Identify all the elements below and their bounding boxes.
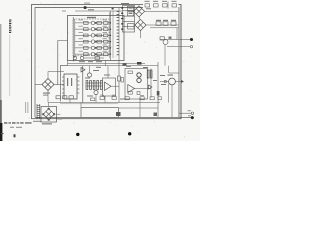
border mask under top right parts bbox=[143, 3, 179, 8]
resistor R40 bbox=[147, 70, 149, 78]
label bbox=[88, 9, 94, 10]
transistor Q13 bbox=[94, 90, 98, 94]
label bbox=[42, 123, 52, 124]
wire bbox=[179, 112, 191, 114]
wire bbox=[80, 103, 82, 108]
wire bbox=[167, 2, 169, 9]
wire bbox=[95, 95, 97, 103]
paper speckle bbox=[9, 2, 194, 138]
bridge rectifier BR4 bbox=[135, 19, 146, 30]
wire bbox=[47, 91, 49, 103]
capacitor C22 bbox=[171, 22, 176, 26]
label above connector bbox=[121, 3, 129, 4]
label marks under block bbox=[79, 61, 102, 62]
loop wire top bbox=[58, 41, 68, 86]
index marks outside border bbox=[25, 102, 27, 113]
dashed pcb outline bbox=[73, 19, 109, 56]
bottom parts labels bbox=[100, 95, 144, 96]
resistor network cluster bbox=[86, 81, 102, 90]
terminal label bbox=[188, 114, 191, 117]
capacitor C20 bbox=[154, 4, 159, 7]
resistor R22 bbox=[156, 22, 161, 26]
resistor R43 bbox=[128, 92, 132, 95]
wire bbox=[160, 81, 169, 83]
label marks cluster bbox=[85, 67, 110, 97]
resistor R42 bbox=[128, 71, 132, 74]
driver block outline U1 bbox=[68, 16, 125, 61]
punch hole left bbox=[76, 133, 79, 136]
resistor R41 bbox=[150, 70, 152, 78]
mid right small parts row labels bbox=[156, 20, 176, 21]
block right edge pins bbox=[117, 11, 119, 55]
wire vertical bbox=[112, 11, 114, 59]
resistor R21 bbox=[163, 4, 168, 7]
wire bbox=[54, 84, 64, 86]
wire bbox=[176, 28, 178, 40]
transistor Q7 bottom of block bbox=[73, 56, 104, 59]
diode D2 bbox=[149, 85, 153, 89]
wire bbox=[164, 45, 166, 66]
resistor R20 bbox=[145, 4, 150, 7]
capacitor C40 bbox=[157, 91, 160, 96]
capacitor C30 bbox=[69, 96, 73, 99]
transformer T1 winding bbox=[37, 104, 40, 119]
meter M1 bbox=[169, 78, 176, 85]
wire bbox=[145, 10, 179, 12]
bottom parts row bbox=[100, 97, 161, 100]
label BR1 bbox=[43, 93, 50, 94]
vertical doc number text left margin bbox=[9, 20, 11, 34]
tiny mark above block bbox=[62, 11, 66, 12]
resistor R50 bbox=[100, 97, 104, 100]
capacitor C52 bbox=[158, 97, 161, 100]
top feed wire bbox=[75, 10, 122, 12]
wire bbox=[57, 113, 61, 115]
wire bbox=[69, 99, 71, 103]
wire bbox=[167, 46, 191, 48]
capacitor C21 bbox=[172, 4, 177, 7]
terminal label bbox=[188, 109, 191, 112]
loop wire lower bbox=[60, 66, 67, 102]
bus wire right bbox=[110, 11, 112, 61]
regulator module U2 bbox=[64, 74, 77, 99]
U2 label bbox=[67, 78, 72, 86]
wire bbox=[35, 84, 42, 86]
wire bbox=[48, 71, 64, 73]
chassis box bottom bbox=[81, 108, 119, 118]
wire bbox=[47, 72, 49, 79]
label marks right cluster bbox=[120, 66, 166, 100]
wire stub bbox=[67, 61, 69, 66]
capacitor C50 bbox=[140, 97, 144, 100]
terminal J3 open bbox=[191, 112, 193, 114]
resistor R37 bbox=[121, 78, 124, 83]
frame outer border bbox=[32, 5, 182, 119]
wire bbox=[89, 66, 91, 73]
part near bottom wire bbox=[154, 113, 158, 117]
margin fold line bbox=[9, 35, 11, 97]
wire bbox=[168, 84, 170, 103]
wire bbox=[168, 66, 170, 73]
wire stub bbox=[104, 96, 106, 103]
center bus 2 bbox=[60, 103, 118, 105]
wire bbox=[139, 17, 141, 19]
diode D1 bbox=[81, 66, 85, 103]
resistor R35 bbox=[118, 76, 121, 81]
wire bbox=[150, 27, 179, 29]
vertical feed with part bbox=[118, 60, 121, 103]
connector wedge top bbox=[84, 6, 87, 9]
wire stub bbox=[105, 61, 107, 66]
resistor R52 bbox=[125, 97, 129, 100]
test point TP1 bbox=[164, 80, 166, 82]
transistor Q10 bbox=[87, 73, 91, 77]
wire stub bbox=[107, 66, 109, 78]
resistor R51 bbox=[112, 97, 116, 100]
frame inner border bbox=[35, 8, 179, 118]
bridge rectifier BR2 bbox=[41, 107, 57, 123]
transistor Q11 bbox=[137, 73, 141, 77]
scan edge strip left bbox=[0, 24, 1, 102]
terminal E1 filled bbox=[190, 38, 193, 41]
bus wire left pair bbox=[72, 17, 74, 62]
wire bbox=[48, 103, 50, 107]
sheet number bbox=[14, 134, 16, 137]
center bus bbox=[48, 102, 160, 104]
bridge rectifier BR1 bbox=[42, 79, 54, 91]
right vertical bus pair bbox=[178, 8, 180, 117]
wire bbox=[150, 69, 152, 98]
tick bbox=[112, 8, 114, 10]
wire bbox=[111, 85, 119, 87]
top right resistor row labels bbox=[145, 1, 177, 2]
label above wedge bbox=[84, 3, 90, 4]
terminal J2 filled bbox=[191, 116, 194, 119]
title text bottom left bbox=[1, 121, 41, 134]
TP label bbox=[168, 75, 174, 76]
wire vertical bbox=[109, 12, 111, 58]
wire bbox=[119, 107, 159, 109]
op-amp module box bbox=[103, 78, 116, 96]
U2 pins bbox=[62, 77, 80, 93]
wire corner bbox=[169, 72, 179, 74]
op-amp U3 bbox=[105, 82, 112, 91]
mid bus wires under block bbox=[68, 63, 146, 65]
connector ladder P1 bbox=[123, 6, 135, 33]
capacitor C51 bbox=[150, 97, 154, 100]
connector pins bbox=[121, 7, 132, 30]
relay K1 cluster bbox=[160, 37, 191, 45]
wire bbox=[146, 24, 179, 26]
capacitor C41 bbox=[137, 92, 140, 95]
transistor Q12 bbox=[137, 78, 141, 82]
label block top bbox=[87, 17, 96, 18]
label bbox=[146, 8, 151, 9]
junction arrow bbox=[137, 62, 142, 65]
wire drop bbox=[139, 98, 141, 118]
row label marks and junction dots bbox=[79, 20, 112, 56]
transistor rows x6 bbox=[75, 21, 111, 56]
resistor R23 bbox=[163, 22, 168, 26]
resistor R36 bbox=[91, 98, 95, 101]
label bbox=[43, 95, 48, 96]
label BR2 bbox=[58, 118, 63, 119]
junction arrow 2 bbox=[123, 63, 127, 65]
wire vertical bbox=[157, 62, 159, 117]
bottom wire bus bbox=[35, 116, 192, 118]
op-amp U4 bbox=[128, 85, 135, 93]
comparator module box bbox=[125, 69, 148, 100]
resistor R30 bbox=[56, 96, 60, 99]
terminal E2 open bbox=[190, 46, 192, 48]
resistor R31 bbox=[63, 96, 67, 99]
part on chassis box bbox=[116, 112, 121, 116]
wire bbox=[140, 31, 142, 38]
wire arrow bbox=[176, 80, 184, 82]
wire bbox=[171, 85, 173, 117]
wire bbox=[135, 88, 152, 90]
punch hole right bbox=[128, 132, 131, 135]
bridge rectifier BR3 bbox=[133, 6, 144, 17]
